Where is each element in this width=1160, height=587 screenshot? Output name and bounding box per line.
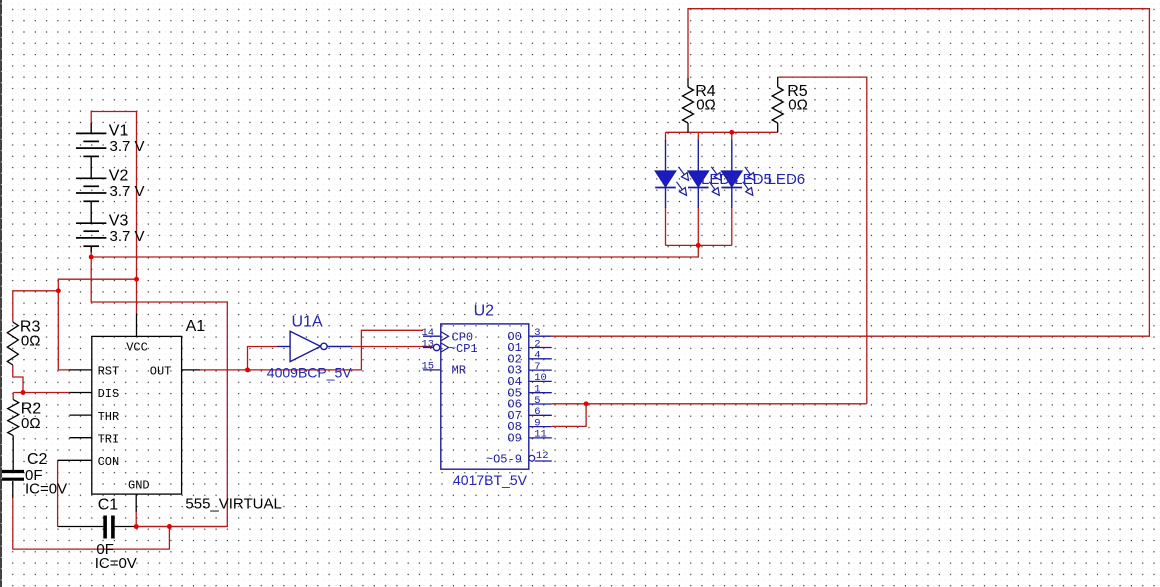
svg-text:MR: MR <box>452 364 466 378</box>
svg-text:VCC: VCC <box>126 341 148 355</box>
svg-text:4: 4 <box>534 350 540 362</box>
svg-text:V3: V3 <box>109 212 129 229</box>
svg-text:C2: C2 <box>27 451 48 468</box>
svg-text:0Ω: 0Ω <box>21 333 41 350</box>
svg-text:V1: V1 <box>109 123 129 140</box>
svg-text:~CP1: ~CP1 <box>449 342 478 356</box>
svg-text:10: 10 <box>534 372 547 384</box>
svg-text:V2: V2 <box>109 167 129 184</box>
svg-text:OUT: OUT <box>150 365 172 379</box>
svg-text:15: 15 <box>422 361 435 373</box>
svg-text:TRI: TRI <box>98 432 120 446</box>
svg-text:2: 2 <box>534 338 540 350</box>
svg-text:5: 5 <box>534 395 540 407</box>
svg-text:A1: A1 <box>186 318 206 335</box>
svg-text:LED6: LED6 <box>768 171 806 188</box>
svg-text:14: 14 <box>422 327 435 339</box>
svg-text:4009BCP_5V: 4009BCP_5V <box>267 365 353 381</box>
svg-text:THR: THR <box>98 410 120 424</box>
svg-text:~O5-9: ~O5-9 <box>486 453 522 467</box>
svg-text:RST: RST <box>98 365 120 379</box>
svg-text:7: 7 <box>534 361 540 373</box>
svg-text:C1: C1 <box>98 497 119 514</box>
svg-text:U1A: U1A <box>292 314 323 331</box>
svg-text:CON: CON <box>98 455 120 469</box>
svg-text:3: 3 <box>534 327 540 339</box>
svg-text:LED5: LED5 <box>734 171 772 188</box>
svg-text:DIS: DIS <box>98 387 120 401</box>
svg-text:0Ω: 0Ω <box>696 97 716 114</box>
svg-text:U2: U2 <box>474 303 495 320</box>
svg-text:3.7 V: 3.7 V <box>110 183 145 200</box>
svg-text:4017BT_5V: 4017BT_5V <box>453 472 528 488</box>
svg-text:GND: GND <box>128 479 150 493</box>
svg-text:13: 13 <box>422 338 435 350</box>
svg-text:3.7 V: 3.7 V <box>110 228 145 245</box>
svg-text:11: 11 <box>534 429 547 441</box>
svg-text:12: 12 <box>536 450 549 462</box>
svg-text:6: 6 <box>534 406 540 418</box>
svg-text:9: 9 <box>534 417 540 429</box>
svg-text:LED4: LED4 <box>701 171 739 188</box>
svg-text:3.7 V: 3.7 V <box>110 138 145 155</box>
svg-text:1: 1 <box>534 384 540 396</box>
svg-text:0Ω: 0Ω <box>788 97 808 114</box>
svg-text:O9: O9 <box>507 432 521 446</box>
svg-text:0Ω: 0Ω <box>21 415 41 432</box>
svg-text:IC=0V: IC=0V <box>95 555 137 572</box>
svg-text:IC=0V: IC=0V <box>25 481 67 498</box>
svg-text:555_VIRTUAL: 555_VIRTUAL <box>185 496 281 513</box>
